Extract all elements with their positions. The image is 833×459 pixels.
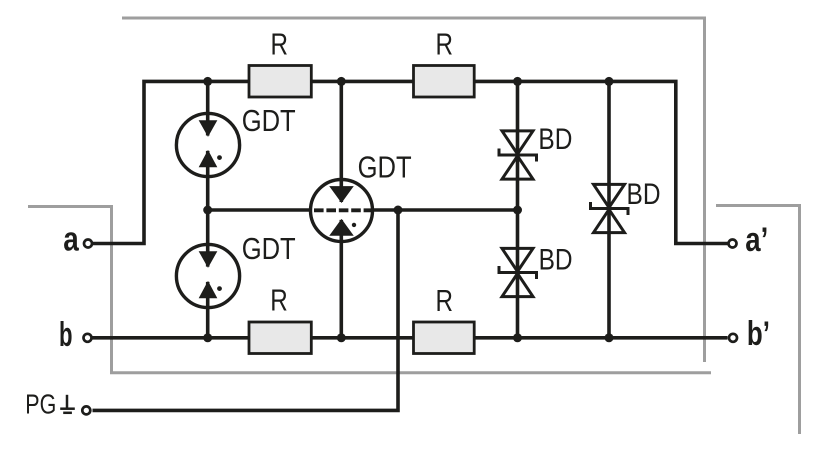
- svg-text:R: R: [271, 26, 289, 61]
- junction (341.3, 337.8): [337, 333, 346, 342]
- wire middle rail left part: [208, 208, 310, 212]
- wire a terminal to top rail: [93, 81, 249, 243]
- wire BD chain 1 column: [516, 81, 520, 337]
- svg-text:GDT: GDT: [242, 103, 296, 138]
- resistor R1: [249, 26, 311, 97]
- junction (207.7, 210): [203, 206, 212, 215]
- junction (207.7, 337.8): [203, 333, 212, 342]
- wire middle GDT column bottom lead: [339, 220, 343, 338]
- junction (609, 81.4): [605, 77, 614, 86]
- junction (341.3, 81.4): [337, 77, 346, 86]
- svg-text:BD: BD: [538, 123, 572, 156]
- wire middle GDT column top lead: [339, 81, 343, 202]
- equipment boundary (gray frame, right box): [716, 206, 800, 435]
- svg-text:PG: PG: [25, 389, 56, 420]
- breakdown diode BD1 (upper, chain 1): [499, 131, 537, 179]
- svg-text:a: a: [63, 221, 79, 259]
- svg-text:b: b: [59, 316, 73, 354]
- terminal a': [729, 221, 769, 259]
- svg-text:BD: BD: [627, 178, 661, 211]
- wire top rail between R1 and R2: [311, 80, 413, 84]
- wire middle rail right part: [374, 208, 518, 212]
- junction (609, 337.8): [605, 333, 614, 342]
- wire PG riser and PG lead: [93, 210, 399, 410]
- svg-text:R: R: [270, 283, 288, 318]
- wire BD chain 2 column: [607, 81, 611, 337]
- junction (517.5, 210): [513, 206, 522, 215]
- wire bottom rail from b to R3: [93, 336, 250, 340]
- wire GDT stack column top segment: [206, 81, 210, 135]
- resistor R2: [414, 26, 475, 97]
- svg-text:BD: BD: [539, 243, 573, 276]
- svg-text:GDT: GDT: [242, 231, 296, 266]
- wire GDT stack column middle segment: [206, 151, 210, 267]
- terminal PG: [25, 389, 90, 420]
- wire GDT stack column bottom segment: [206, 282, 210, 338]
- breakdown diode BD3 (chain 2): [591, 184, 629, 232]
- gas discharge tube GDT2 (two-electrode, lower left): [176, 231, 295, 307]
- junction (517.5, 337.8): [513, 333, 522, 342]
- terminal b: [59, 316, 92, 354]
- svg-text:b’: b’: [747, 315, 770, 353]
- equipment boundary (gray frame, main box): [28, 18, 711, 373]
- breakdown diode BD2 (lower, chain 1): [499, 248, 537, 296]
- gas discharge tube GDT3 (three-electrode, middle): [311, 149, 412, 241]
- wire bottom rail from R4 to b': [474, 336, 727, 340]
- gas discharge tube GDT1 (two-electrode, upper left): [176, 103, 295, 177]
- svg-text:GDT: GDT: [358, 149, 412, 184]
- terminal a: [63, 221, 92, 259]
- ground symbol (protective earth at PG): [60, 395, 75, 413]
- resistor R4: [414, 283, 475, 354]
- svg-text:R: R: [436, 283, 454, 318]
- resistor R3: [249, 283, 311, 354]
- svg-text:a’: a’: [745, 221, 768, 259]
- junction (517.5, 81.4): [513, 77, 522, 86]
- terminal b': [729, 315, 770, 353]
- junction (207.7, 81.4): [203, 77, 212, 86]
- wire bottom rail between R3 and R4: [311, 336, 413, 340]
- junction (398, 210): [394, 206, 403, 215]
- svg-text:R: R: [436, 26, 454, 61]
- wire top rail from R2 to a': [474, 81, 727, 243]
